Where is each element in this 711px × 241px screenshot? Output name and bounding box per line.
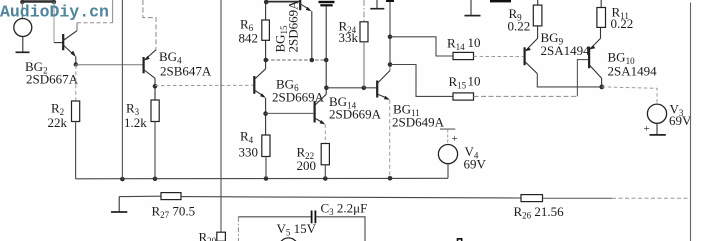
node BG2 emitter junction	[74, 57, 78, 67]
resistor R11	[597, 8, 606, 28]
label V4	[465, 144, 479, 161]
wire long vertical x=221 to R20	[220, 0, 222, 232]
label 10 R14	[468, 35, 481, 50]
label BG6	[276, 77, 299, 94]
node dot x=266 y=60	[264, 58, 269, 63]
wire BG15 emitter down to node	[311, 11, 313, 60]
wire V4 bottom to bus	[447, 164, 449, 179]
svg-text:2SD649A: 2SD649A	[392, 115, 445, 130]
transistor BG4 2SB647A	[144, 50, 156, 79]
resistor R15	[453, 93, 474, 100]
wire BG4 collector to BG6 base	[155, 84, 254, 86]
svg-text:69V: 69V	[464, 157, 487, 172]
resistor R27	[161, 193, 181, 200]
label R15	[449, 74, 467, 91]
wire to R15	[390, 65, 453, 97]
svg-text:+: +	[644, 123, 650, 135]
svg-text:+: +	[452, 133, 458, 145]
source V4	[438, 145, 457, 164]
wire BG9 collector to output	[537, 74, 602, 87]
node dot x=390 y=64.5	[388, 62, 393, 67]
svg-text:R14: R14	[447, 36, 465, 53]
resistor R26	[521, 195, 543, 202]
node bus dot x=122	[120, 177, 125, 182]
label 842	[239, 31, 259, 46]
svg-text:2SD669A: 2SD669A	[272, 90, 325, 105]
wire R11 top lead	[600, 0, 602, 8]
label 2SD649A	[392, 115, 445, 130]
wire BG11 emitter to bus	[389, 100, 391, 179]
wire BG2 collector vertical	[76, 23, 78, 31]
transistor BG14 2SD669A	[315, 94, 327, 124]
label R22	[297, 145, 315, 162]
wire BG11 collector dash to dot	[389, 65, 391, 71]
label 2SB647A	[160, 64, 212, 79]
svg-text:2SD667A: 2SD667A	[26, 72, 79, 87]
label BG15 rotated	[273, 25, 290, 53]
label 2SD669A BG6	[272, 90, 325, 105]
node bus dot x=390	[388, 176, 393, 181]
wire R3 to bus	[154, 122, 156, 179]
label 2SD667A	[26, 72, 79, 87]
svg-text:R15: R15	[449, 74, 467, 91]
wire R11 to BG10 emitter	[600, 27, 602, 38]
label 2SA1494 BG10	[608, 64, 658, 79]
wire V4 top lead	[447, 130, 449, 145]
wire V1 bottom lead	[22, 37, 24, 53]
label plus V3	[644, 123, 650, 135]
svg-text:R26 21.56: R26 21.56	[514, 204, 565, 221]
wire BG2 emitter to BG4 base	[76, 64, 143, 66]
source V3	[647, 104, 666, 123]
wire long vertical x=122	[121, 0, 123, 179]
label BG11	[393, 102, 420, 119]
ground stub x=471	[465, 0, 481, 16]
label BG2	[25, 59, 48, 76]
resistor R3	[151, 100, 159, 122]
ground below V1	[16, 51, 30, 53]
label 2SD669A BG15 rotated	[286, 0, 301, 53]
wire ground to R27	[119, 195, 161, 197]
wire V1 top lead	[21, 2, 23, 19]
wire BG6 emitter to BG14 base	[266, 112, 314, 114]
node bus dot x=266	[264, 176, 269, 181]
wire input top rail	[22, 0, 54, 2]
resistor R4	[262, 135, 270, 157]
wire R9 to BG9 emitter	[537, 26, 539, 39]
wire capacitor down to node	[325, 6, 327, 60]
wire R26 to right rail	[543, 197, 691, 199]
wire BG10 collector down to output dot	[601, 78, 603, 87]
wire output to V3	[602, 87, 657, 104]
svg-text:1.2k: 1.2k	[124, 115, 147, 130]
svg-text:AudioDiy.cn: AudioDiy.cn	[0, 3, 109, 22]
label R2	[51, 101, 64, 118]
label R14	[447, 36, 465, 53]
node dot x=312 y=60	[310, 58, 315, 63]
source V5 (cut at bottom)	[279, 238, 298, 241]
svg-text:330: 330	[239, 145, 259, 160]
label 2SA1494 BG9	[541, 43, 591, 58]
node bus dot x=155	[153, 177, 158, 182]
transistor BG9 2SA1494	[525, 38, 538, 73]
wire BG14 emitter to R22	[324, 125, 326, 144]
label 2SD669A BG14	[329, 107, 382, 122]
svg-text:2SD669A: 2SD669A	[329, 107, 382, 122]
capacitor bottom plate	[320, 4, 332, 6]
svg-text:R4: R4	[240, 129, 254, 146]
svg-text:2SD669A: 2SD669A	[286, 0, 301, 53]
node output dot	[599, 85, 604, 90]
label R6	[240, 17, 254, 34]
label 1.2k	[124, 115, 147, 130]
svg-text:2SA1494: 2SA1494	[541, 43, 591, 58]
svg-text:69V: 69V	[669, 113, 692, 128]
label 69V V4	[464, 157, 487, 172]
svg-text:22k: 22k	[48, 115, 68, 130]
svg-text:2SA1494: 2SA1494	[608, 64, 658, 79]
terminal bar above V4	[440, 128, 455, 130]
wire BG6 collector up	[265, 60, 267, 69]
wire R15 to BG10 base	[474, 60, 589, 97]
wire R24 bottom to base node	[363, 42, 365, 88]
label BG14	[329, 94, 357, 111]
wire V5 box top right	[316, 217, 365, 241]
node top rail dot	[264, 0, 269, 4]
wire top rail to BG15	[266, 1, 300, 3]
resistor R20	[217, 232, 226, 241]
svg-text:10: 10	[468, 35, 481, 50]
wire base feed drop x=54	[53, 2, 55, 43]
label R24	[339, 19, 357, 36]
transistor BG11 2SD649A	[377, 71, 390, 100]
svg-text:33k: 33k	[339, 30, 359, 45]
node BG6 emitter junction	[263, 98, 268, 135]
node dot x=326 y=87.8	[324, 86, 329, 91]
wire R24 branch dash-dot	[363, 0, 365, 22]
wire emitter ground bus	[76, 177, 448, 180]
node BG4 collector junction	[153, 78, 158, 100]
capacitor C3	[312, 211, 316, 224]
node dot x=390 y=36.8	[388, 35, 393, 40]
ground below V3	[650, 134, 666, 136]
resistor R24	[360, 22, 368, 42]
wire R2 to ground bus	[75, 122, 77, 179]
transistor BG10 2SA1494	[589, 38, 602, 78]
label BG10	[608, 50, 636, 67]
resistor R9	[533, 5, 542, 26]
wire collector rail up to top edge	[112, 0, 114, 23]
svg-text:R20: R20	[199, 230, 217, 241]
svg-text:0.22: 0.22	[611, 16, 634, 31]
label R26 21.56	[514, 204, 565, 221]
label BG9	[541, 30, 564, 47]
svg-text:2SB647A: 2SB647A	[160, 64, 212, 79]
wire R6 bottom lead	[265, 40, 267, 60]
label 200	[297, 158, 317, 173]
resistor R14	[453, 52, 474, 59]
terminal blob top x=390	[386, 0, 394, 2]
wire R4 to bus	[265, 157, 267, 179]
label BG4	[159, 49, 182, 66]
label 0.22 R9	[508, 19, 531, 34]
resistor R22	[321, 144, 329, 165]
label cut letter at bottom edge	[458, 239, 462, 241]
wire R9 top lead	[537, 0, 539, 5]
transistor BG2 2SD667A	[63, 31, 77, 57]
node dot x=364 BG11 base junction	[362, 86, 367, 91]
svg-text:0.22: 0.22	[508, 19, 531, 34]
label R4	[240, 129, 254, 146]
ground of feedback network	[111, 197, 127, 212]
label 330	[239, 145, 259, 160]
node input-top-left junction dot	[20, 0, 24, 4]
wire x=326 node down to BG14 collector	[325, 60, 327, 94]
node input-top-right junction dot	[52, 0, 56, 4]
label 69V V3	[669, 113, 692, 128]
capacitor top plate	[319, 1, 335, 3]
label V3	[670, 102, 684, 119]
node line R6 bottom y=60	[266, 59, 327, 61]
label R27 70.5	[152, 204, 196, 221]
label V5 15V	[277, 221, 317, 238]
svg-text:V5 15V: V5 15V	[277, 221, 317, 238]
wire drop to R2	[75, 65, 77, 101]
label 0.22 R11	[611, 16, 634, 31]
terminal bar top x=377	[370, 0, 384, 9]
source V1 input	[14, 19, 32, 37]
wire V5 box top left	[238, 217, 311, 241]
label plus V4	[452, 133, 458, 145]
label 10 R15	[468, 74, 481, 89]
wire R22 to bus	[324, 165, 326, 179]
wire right rail	[690, 3, 692, 241]
wire node line to BG11 base	[326, 87, 376, 89]
svg-text:10: 10	[468, 74, 481, 89]
wire V3 bottom lead	[656, 123, 658, 134]
label C3 2.2uF	[321, 201, 368, 218]
svg-text:200: 200	[297, 158, 317, 173]
terminal blob top x=500	[490, 0, 511, 2]
svg-text:R27 70.5: R27 70.5	[152, 204, 196, 221]
label R3	[126, 101, 140, 118]
wire BG4 emitter rail from top	[143, 0, 156, 50]
wire to BG2 base	[54, 42, 63, 44]
watermark AudioDiy.cn	[0, 3, 109, 22]
resistor R6	[262, 20, 270, 40]
node dot x=326 y=60	[324, 58, 329, 63]
resistor R2	[72, 101, 80, 122]
label R9	[509, 6, 523, 23]
wire BG2 collector horizontal to rail	[77, 22, 113, 24]
transistor BG6 2SD669A	[254, 69, 265, 98]
label R20	[199, 230, 217, 241]
transistor BG15 2SD669A (cut at top)	[300, 0, 312, 11]
wire R6 top to rail	[265, 2, 267, 20]
wire to R14	[390, 37, 453, 56]
wire R14 to BG9 base	[474, 55, 524, 57]
label 33k	[339, 30, 359, 45]
svg-text:C3 2.2μF: C3 2.2μF	[321, 201, 368, 218]
label 22k	[48, 115, 68, 130]
wire R27 to R26	[181, 197, 521, 198]
wire collector rail x=390 from top	[389, 0, 391, 65]
svg-text:842: 842	[239, 31, 259, 46]
label R11	[612, 5, 629, 22]
node bus dot x=325	[323, 176, 328, 181]
